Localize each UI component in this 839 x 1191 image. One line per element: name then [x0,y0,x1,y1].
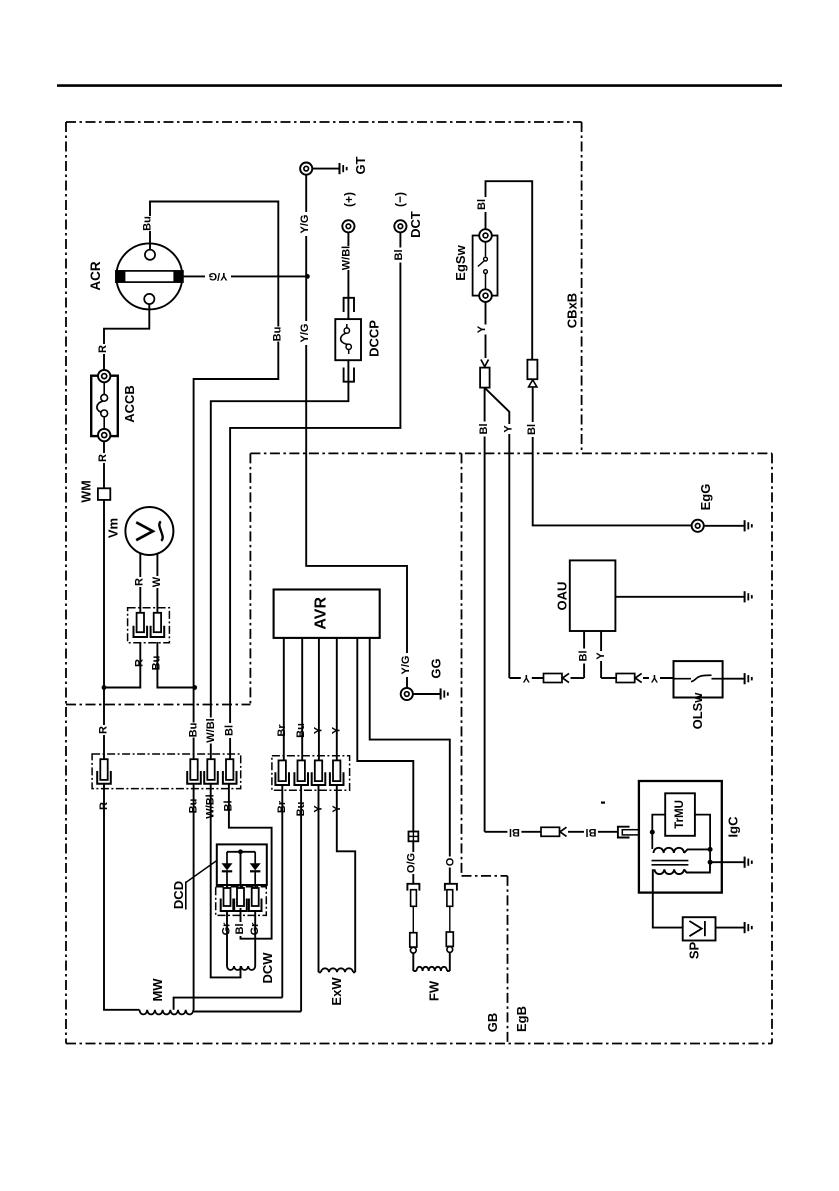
wire OLSw to ground [723,678,744,680]
AVR pin6 wire to FW [370,638,450,884]
wire Bl to IgC connector [568,831,618,833]
label W/Bl above pin [205,718,217,744]
meter WM body [98,488,110,500]
svg-text:Y/G: Y/G [299,324,311,343]
connector O bracket [445,884,457,891]
pin Gr right [249,888,262,911]
connector below DCCP [344,368,354,382]
wire Br to MW tap [281,785,283,998]
wire Y1 to ExW [318,785,320,972]
svg-text:DCD: DCD [171,881,186,909]
svg-text:Y: Y [595,652,607,660]
diode D2 [250,852,261,888]
wire EgG to ground [704,525,744,527]
svg-text:R: R [97,454,109,462]
label TrMU [674,800,686,829]
svg-text:OAU: OAU [554,582,569,611]
wire to FW left [412,953,414,971]
pin Bl [223,759,237,784]
wire Y link to OLSw [601,677,616,679]
module IgC body [639,781,722,893]
pin Bu [187,759,201,784]
label Bl at OAU [578,649,590,664]
ExW baseline left [319,971,322,973]
label Bu2 above pin [295,723,307,738]
rectifier DCD body [217,844,267,885]
label Bl below pin [223,799,235,814]
module AVR body [274,590,380,638]
connector arrow on Y [481,360,489,367]
wire Y branch diagonal [485,388,509,678]
svg-text:R: R [134,578,146,586]
IgC secondary winding [655,869,684,874]
DCCP fuse element [341,324,352,354]
svg-text:TrMU: TrMU [674,800,686,829]
pin Br [275,760,289,785]
wire MW tap [174,998,283,1010]
page top rule [57,84,782,87]
EgSw contacts [478,242,488,289]
winding ExW [321,968,353,972]
label Y below EgSw [476,325,488,335]
switch OLSw body [674,661,723,697]
AVR pin5 wire to FW [357,638,413,832]
svg-text:AVR: AVR [313,597,330,630]
DCD leader [186,861,217,883]
wire Bl from EgSw top [486,181,533,360]
svg-text:MW: MW [150,978,165,1002]
label R above connector [98,725,110,735]
wire to TrMU left [652,815,665,833]
Vm connector pin R [134,613,148,637]
label R at Vm [134,577,146,587]
label ACCB [122,385,137,423]
connector pair on OLSw link [616,673,642,682]
connector O pin [447,890,453,907]
svg-text:Bl: Bl [476,199,488,210]
connector body on Y [480,368,490,388]
wire Y/G from ACR slot [183,275,307,277]
svg-text:R: R [97,345,109,353]
connector O/G bracket [407,884,419,891]
label (+) [342,192,356,207]
label Bl to EgG [526,422,538,437]
label Bl mid [234,922,246,936]
svg-text:ExW: ExW [329,977,344,1006]
svg-text:Bl: Bl [224,725,236,736]
svg-text:ACR: ACR [88,261,103,290]
svg-text:GG: GG [429,658,444,678]
svg-text:Bu: Bu [188,723,200,738]
module OAU body [570,560,616,631]
terminal GT [300,163,312,175]
SP electrode symbol [689,921,705,936]
svg-text:GB: GB [485,1013,500,1033]
label Y/G at GG [400,653,412,677]
connector box B [272,756,350,791]
connector O lower pin [446,932,453,946]
label Bl at DCT [393,248,405,263]
wire O mid [449,906,451,932]
ACR slot [116,271,183,282]
wire Gr right to DCW [254,911,256,966]
svg-text:Bu: Bu [142,216,154,231]
wire into DCCP [347,298,349,319]
diode D1 [222,852,233,888]
pin W/Bl [204,759,218,784]
FW baseline left [413,970,416,972]
wire Vm W lead [156,554,158,613]
label DCW [260,952,275,984]
wire R from ACR [104,304,149,370]
label Bl at EgSw [476,197,488,212]
terminal DC (+) [342,220,354,232]
svg-text:Bu: Bu [295,723,307,738]
svg-text:Bl: Bl [586,826,597,838]
wire Vm R lead [139,553,141,612]
svg-text:OLSw: OLSw [690,692,705,730]
ground SP [745,922,752,933]
label DCD [171,881,186,909]
connector IgC entry [618,827,640,838]
wire TrMU right down [695,815,710,863]
label OLSw [690,692,705,730]
FW baseline right [447,970,450,972]
svg-text:Bl: Bl [478,424,490,435]
wire Y-Bl link left [509,677,543,679]
label R below pin [98,801,110,811]
svg-text:Y/G: Y/G [400,656,412,675]
label WM [80,480,94,502]
ground GG [441,688,448,699]
svg-text:Bu: Bu [272,327,284,342]
wire W/Bl to DCCP [347,232,349,298]
wire IgC to ground [710,861,744,863]
label MW [150,978,165,1002]
wire Bu from ACR to connector [150,202,278,760]
label (-) [393,192,407,207]
label Bl above pin [224,723,236,738]
svg-text:FW: FW [426,980,441,1001]
winding MW [140,1010,194,1015]
svg-text:SP: SP [687,942,702,960]
boundary engine box right edge [771,453,773,1043]
wire Bl to EgG [533,387,692,526]
label EgSw [453,244,468,280]
wire into OLSw [643,677,674,679]
label Y1 below pin [313,804,325,814]
IgC core line 1 [652,860,689,862]
wire Bu below pin to MW [193,784,195,1010]
label ACR [88,261,103,290]
switch EgSw body [473,236,498,296]
ground OAU [745,591,752,602]
label R above ACCB [97,344,109,354]
svg-text:W: W [151,576,163,587]
label Y/G lower [299,321,311,345]
svg-text:DCW: DCW [260,952,275,984]
mark [601,802,605,804]
fuse on O/G [409,832,419,842]
wire O/G mid [412,906,414,932]
EgSw bottom terminal [479,289,492,302]
svg-text:Vm: Vm [106,518,121,538]
svg-text:W/Bl: W/Bl [341,246,353,270]
junction primary-TrMU [708,847,713,852]
Vm connector pin W [151,613,165,637]
svg-text:O: O [444,857,456,866]
boundary CBxB right-lower edge [249,453,251,704]
pin Gr left [221,888,234,911]
connector O/G bullet [410,947,416,953]
label Gr right [249,922,261,936]
terminal EgG [692,520,704,532]
label Y/G upper [299,212,311,236]
wire Bu2 to MW end [300,785,302,1012]
junction DCD rail [238,849,243,854]
label W/Bl at (+) [341,246,353,270]
DCW center tap [240,966,242,969]
pin Bl mid [234,888,247,911]
AVR pin3 wire Y [318,638,320,761]
wire Vm Bu link [157,642,194,688]
svg-text:EgSw: EgSw [453,244,468,280]
wire GT to ground [312,168,338,170]
ACCB breaker element [97,382,108,429]
svg-text:ACCB: ACCB [122,385,137,423]
label Gr left [221,922,233,936]
label DCCP [367,320,382,357]
svg-text:Bl: Bl [526,424,538,435]
ACCB top terminal [98,370,110,382]
wire SP to ground [716,927,744,929]
boundary CBxB box top edge [66,121,582,123]
wire OAU to ground [615,596,743,598]
wire entry to primary [651,832,653,849]
ExW baseline right [353,971,355,973]
label Y mid [502,424,514,434]
connector body on Bl branch [527,360,537,380]
winding FW [417,967,448,971]
wire GG to ground [413,693,440,695]
boundary engine box top edge [250,452,772,454]
label Y at OAU [595,651,607,661]
junction Bu at Vm link [192,685,197,690]
AVR pin2 wire Bu [301,638,303,761]
wire W/Bl down-left [211,360,349,759]
label W/Bl below pin [205,794,217,820]
ground EgG [745,520,752,531]
wire OAU Y pin [600,631,602,678]
svg-text:DCCP: DCCP [367,320,382,357]
wire Gr left to DCW [226,911,228,966]
svg-text:GT: GT [353,156,368,174]
wire MW right bus [194,1011,302,1013]
breaker ACCB body [91,376,118,436]
DCD label underline [185,882,187,910]
label Bu at ACR [142,216,154,231]
svg-text:Y: Y [476,325,488,333]
terminal GG [401,688,413,700]
IgC secondary left lead to SP [653,869,683,927]
winding DCW [227,966,255,970]
connector above DCCP [344,298,354,312]
label AVR [313,597,330,630]
OLSw contact [674,675,723,681]
svg-text:Y: Y [502,425,514,433]
wire to FW right [449,952,451,971]
wire Bl horizontal to IgC [485,831,541,833]
label DCT [408,211,423,238]
IgC core line 2 [652,864,689,866]
wire W/Bl below pin to DCW [211,784,241,978]
connector pair on Y-Bl link [544,673,570,682]
boundary left edge [65,122,67,1044]
label EgB [514,1006,529,1032]
svg-text:(−): (−) [393,192,407,207]
boundary GB/EgB divider vertical lower [507,876,509,1044]
label Y2 below pin [331,804,343,814]
AVR pin1 wire Br [283,638,285,761]
svg-text:Bl: Bl [509,826,520,838]
label GT [353,156,368,174]
label Y1 above pin [312,726,324,736]
wire R below ACCB [103,441,105,488]
wire R below pin to MW [104,784,140,1010]
label Vm [106,518,121,538]
label GG [429,658,444,678]
junction ground node [708,860,713,865]
spark plug SP body [683,917,716,940]
svg-text:EgG: EgG [698,484,713,511]
label Bu below Vm connector [151,656,163,671]
pin Y2 [330,760,344,785]
svg-text:IgC: IgC [725,816,740,838]
connector box DCD [216,887,267,916]
label Y on link [521,672,532,684]
label Br below pin [276,800,288,815]
label OAU [554,582,569,611]
label O [444,857,456,868]
wire Bl below pin to diode rail [229,784,272,939]
fuse DCCP body [335,319,361,360]
svg-text:W/Bl: W/Bl [205,718,217,742]
pin R [97,759,111,784]
label O/G [406,852,418,874]
label SP [687,942,702,960]
label Bu below pin [188,799,200,814]
connector O bullet [447,947,453,953]
svg-text:CBxB: CBxB [564,293,579,328]
label EgG [698,484,713,511]
junction R at Vm link [102,685,107,690]
connector box Vm [128,608,170,643]
label Bu on vertical [272,327,284,342]
label Y2 above pin [331,726,343,736]
connector pair on IgC link [541,827,567,836]
svg-text:DCT: DCT [408,211,423,238]
junction Y/G [305,274,310,279]
wire Y-Bl link right [571,677,585,679]
label Bl on IgC link 2 [584,826,598,838]
terminal DC (-) [394,220,406,232]
wire Bl from DCT [230,232,400,759]
svg-text:O/G: O/G [406,853,418,873]
AVR pin4 wire Y [336,638,338,761]
label GB [485,1013,500,1033]
Vm symbol [136,522,162,541]
wire O/G upper [412,841,414,883]
svg-text:WM: WM [80,480,94,502]
boundary GB/EgB divider step [462,875,508,877]
svg-text:(+): (+) [342,192,356,207]
connector box A [92,754,241,789]
svg-text:Bl: Bl [578,651,590,662]
label W at Vm [151,576,163,588]
svg-text:Y/G: Y/G [209,270,228,282]
relay ACR body [116,243,182,309]
label R below ACCB [97,453,109,463]
DCD top rail [227,851,255,853]
DCD pin2 vertical [240,852,242,888]
wire Bl to IgC row [484,388,486,832]
svg-text:Y: Y [522,672,530,684]
wire R from WM to connector [103,500,105,759]
junction IgC entry [650,830,655,835]
ground GT [340,163,347,174]
wire IgC entry [640,831,652,833]
ground OLSw [745,673,752,684]
label ExW [329,977,344,1006]
svg-text:R: R [98,726,110,734]
boundary CBxB right edge [581,122,583,453]
svg-text:Bl: Bl [393,250,405,261]
ACR top pin [145,250,155,260]
connector O/G lower pin [410,933,417,947]
connector triangle on Bl branch [529,380,537,387]
label Bl on IgC link 1 [507,826,521,838]
ACR bottom pin [144,294,154,304]
boundary CBxB bottom edge [66,704,250,706]
module TrMU body [665,793,695,836]
wire Y from EgSw [485,302,487,358]
label IgC [725,816,740,838]
label Bl mid [478,422,490,437]
wire Y/G vertical [306,175,407,688]
svg-text:Y: Y [650,672,658,684]
ground IgC [745,857,752,868]
label FW [426,980,441,1001]
svg-text:Y/G: Y/G [299,215,311,234]
connector O/G pin [411,890,417,907]
boundary GB/EgB divider vertical upper [461,453,463,876]
IgC secondary right lead [684,862,710,872]
svg-text:Bl: Bl [234,924,246,935]
EgSw top terminal [479,229,492,242]
label Y/G at ACR (rotated 180) [205,270,231,282]
ACCB bottom terminal [98,429,110,441]
label Y on OLSw link [649,672,660,684]
svg-text:EgB: EgB [514,1006,529,1032]
wire Vm R link [104,642,140,688]
label CBxB [564,293,579,328]
label Br above pin [276,723,288,738]
wire Y2 to ExW [337,785,355,972]
label Bu above pin [188,723,200,738]
label Bu2 below pin [295,802,307,817]
IgC primary right lead [684,849,710,853]
pin Bu2 [294,760,308,785]
